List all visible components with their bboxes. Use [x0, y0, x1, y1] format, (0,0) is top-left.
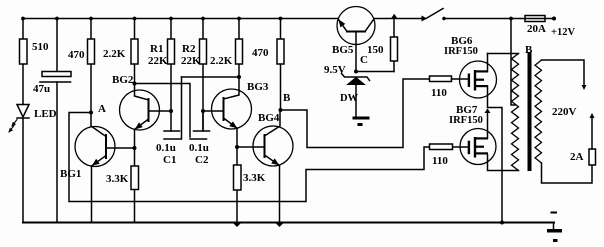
- svg-text:3.3K: 3.3K: [243, 172, 266, 184]
- svg-text:220V: 220V: [552, 106, 577, 118]
- svg-text:C2: C2: [195, 154, 209, 166]
- transistor BG1: [75, 113, 135, 223]
- svg-text:+12V: +12V: [551, 27, 575, 38]
- resistor 110 upper: [430, 76, 452, 82]
- wire node B to BG6 gate path: [281, 79, 430, 148]
- transistor BG3: [203, 77, 252, 147]
- +12V terminal dot: [552, 17, 556, 21]
- svg-text:22K: 22K: [148, 55, 168, 67]
- LED: [9, 105, 29, 223]
- mosfet BG6 IRF150: [452, 54, 503, 223]
- resistor 3.3K second: [234, 147, 242, 223]
- transformer primary winding: [512, 54, 519, 171]
- fuse 20A: [525, 16, 545, 22]
- wire top rail switch-to-+12V section: [444, 18, 554, 20]
- capacitor 47u electrolytic: [40, 19, 71, 223]
- svg-text:510: 510: [32, 41, 49, 53]
- wire secondary bottom loop: [542, 163, 593, 183]
- svg-text:110: 110: [431, 87, 447, 99]
- node A junction dot: [89, 111, 93, 115]
- transformer secondary winding: [535, 60, 542, 163]
- wire top rail BG5-to-switch section: [374, 18, 423, 20]
- svg-text:LED: LED: [34, 108, 57, 120]
- svg-text:470: 470: [252, 47, 269, 59]
- svg-text:150: 150: [367, 44, 384, 56]
- svg-text:9.5V: 9.5V: [324, 64, 346, 76]
- wire BG6 drain to primary top: [488, 53, 519, 55]
- resistor 2.2K first: [131, 19, 138, 84]
- transistor BG5: [337, 7, 375, 72]
- wire BG3 collector to C1: [182, 76, 240, 78]
- junction arrow at rail x279: [276, 223, 284, 227]
- resistor 3.3K first: [131, 148, 139, 223]
- fuse 2A: [589, 149, 596, 165]
- resistor 2.2K second: [236, 19, 243, 78]
- svg-text:2.2K: 2.2K: [103, 48, 126, 60]
- junction dot BG6 source at ground rail: [500, 221, 504, 225]
- transformer core: [528, 52, 532, 171]
- svg-text:C1: C1: [163, 154, 176, 166]
- resistor 470 first: [88, 19, 95, 113]
- junction arrow at rail for 150: [391, 14, 398, 19]
- svg-text:3.3K: 3.3K: [106, 173, 129, 185]
- svg-text:IRF150: IRF150: [444, 46, 478, 57]
- svg-text:110: 110: [432, 155, 448, 167]
- zener diode DW: [342, 74, 370, 117]
- svg-text:BG5: BG5: [332, 44, 354, 56]
- junction dot BG3 base / C2 / R2: [201, 109, 205, 113]
- resistor R1 22K: [168, 19, 175, 132]
- svg-text:IRF150: IRF150: [449, 115, 483, 126]
- transistor BG4: [237, 110, 293, 223]
- resistor 470 second: [277, 19, 284, 111]
- wire BG2 collector to C2: [135, 84, 191, 138]
- wire node C to 150: [356, 71, 394, 73]
- resistor R2 22K: [200, 19, 207, 132]
- svg-text:22K: 22K: [181, 55, 201, 67]
- switch K: [422, 9, 446, 22]
- node B junction dot: [279, 108, 283, 112]
- resistor 110 lower: [430, 144, 453, 150]
- wire bottom ground rail: [23, 222, 554, 224]
- svg-text:R1: R1: [150, 43, 163, 55]
- junction dots top rail: [21, 17, 513, 21]
- svg-text:2.2K: 2.2K: [210, 55, 233, 67]
- ground below DW: [353, 117, 370, 127]
- resistor 510: [20, 19, 28, 105]
- svg-text:BG2: BG2: [112, 74, 134, 86]
- resistor 150: [391, 19, 398, 72]
- wire node A to BG7 gate path: [69, 113, 430, 202]
- wire top rail left section: [23, 18, 338, 20]
- junction dot BG1 base / BG2 emitter: [133, 146, 137, 150]
- svg-text:20A: 20A: [527, 23, 546, 35]
- mosfet BG7 IRF150: [453, 109, 519, 171]
- svg-text:B: B: [283, 92, 291, 104]
- junction dot BG2 base / C1 / R1: [169, 109, 173, 113]
- svg-text:B: B: [525, 44, 533, 56]
- svg-text:BG1: BG1: [60, 168, 81, 180]
- svg-text:0.1u: 0.1u: [189, 142, 209, 154]
- wire +12V feed to transformer center tap: [511, 19, 515, 106]
- node C junction dot: [354, 70, 358, 74]
- svg-text:A: A: [98, 103, 106, 115]
- capacitor C2 0.1u: [190, 111, 210, 139]
- junction dot BG2 collector: [133, 82, 137, 86]
- svg-text:DW: DW: [340, 93, 359, 104]
- svg-text:BG4: BG4: [258, 112, 280, 124]
- transistor BG2: [120, 84, 172, 149]
- svg-text:0.1u: 0.1u: [156, 142, 176, 154]
- svg-text:470: 470: [68, 49, 85, 61]
- svg-text:2A: 2A: [570, 151, 584, 163]
- svg-text:R2: R2: [182, 43, 196, 55]
- svg-text:47u: 47u: [33, 83, 50, 95]
- svg-text:BG3: BG3: [247, 81, 269, 93]
- ground bottom right: [547, 212, 562, 243]
- capacitor C1 0.1u: [164, 77, 182, 139]
- junction arrow at rail x236: [233, 223, 241, 227]
- junction dot BG4 base / BG3 emitter: [235, 145, 239, 149]
- wire secondary top to 220V terminal: [542, 60, 585, 86]
- wire 2A fuse to 220V terminal with arrow: [591, 116, 593, 149]
- junction dot BG3 collector: [237, 75, 241, 79]
